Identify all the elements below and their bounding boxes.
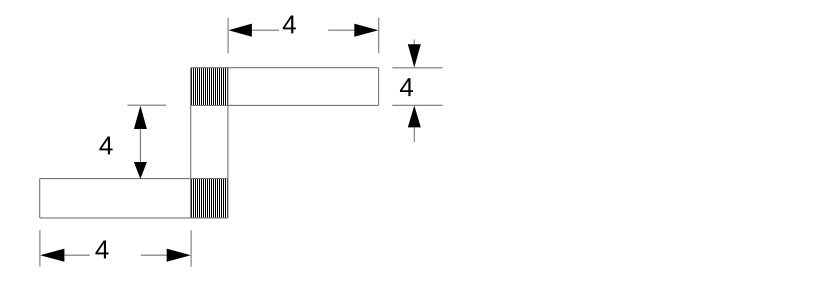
top horizontal bar outline	[191, 68, 379, 106]
top dimension extension line right	[378, 18, 380, 53]
left dimension down arrow	[134, 162, 147, 179]
bottom horizontal bar outline	[40, 179, 228, 218]
bottom dimension right line	[141, 254, 167, 256]
right dimension bottom leader line	[413, 127, 415, 142]
right dimension up arrow	[408, 106, 421, 128]
right dimension extension line top	[392, 67, 442, 69]
left dimension extension line top	[127, 104, 166, 106]
left dimension label 4	[99, 137, 112, 155]
bottom dimension left line	[64, 254, 89, 256]
bottom dimension right arrow	[167, 249, 191, 262]
right dimension label 4	[400, 78, 413, 96]
right dimension extension line bottom	[392, 104, 442, 106]
right dimension down arrow	[408, 44, 421, 67]
right dimension top leader line	[413, 39, 415, 44]
hatched overlap square top	[192, 68, 228, 105]
top dimension extension line left	[227, 18, 229, 54]
left dimension up arrow	[134, 106, 147, 129]
left dimension leader line	[139, 129, 141, 162]
top dimension right line	[328, 29, 354, 31]
bottom dimension left arrow	[40, 249, 64, 262]
top dimension left arrow	[228, 24, 252, 37]
vertical column right edge	[227, 68, 229, 218]
hatched overlap square bottom	[192, 179, 228, 218]
top dimension left line	[252, 29, 279, 31]
top dimension label 4	[283, 16, 296, 34]
bottom dimension extension line left	[39, 230, 41, 266]
vertical column left edge	[190, 68, 192, 218]
bottom dimension label 4	[95, 241, 108, 259]
bottom dimension extension line right	[190, 230, 192, 266]
top dimension right arrow	[354, 24, 378, 37]
